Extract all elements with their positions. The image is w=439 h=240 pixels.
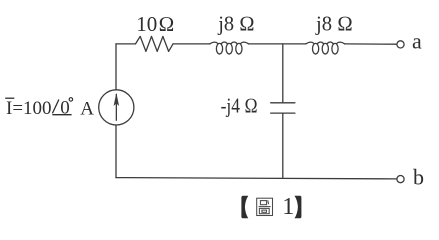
current source arrow — [114, 93, 120, 121]
inductor L2 j8ohm coil — [313, 43, 319, 54]
wire resistor to inductor1 — [173, 43, 210, 45]
wire bottom horizontal — [116, 178, 397, 179]
svg-text:j8 Ω: j8 Ω — [217, 12, 255, 36]
svg-text:0: 0 — [60, 98, 69, 119]
caption figure 1 — [241, 194, 301, 220]
angle symbol with underline under 0 — [52, 100, 71, 115]
wire left vertical lower — [115, 125, 117, 178]
svg-text:-j4 Ω: -j4 Ω — [221, 94, 258, 118]
capacitor C bottom plate — [271, 112, 295, 114]
svg-text:b: b — [413, 164, 424, 189]
svg-text:1: 1 — [282, 194, 294, 220]
svg-text:A: A — [80, 98, 94, 119]
svg-text:j8 Ω: j8 Ω — [315, 12, 353, 36]
wire middle vertical lower (capacitor to bottom) — [282, 113, 284, 178]
wire left vertical upper — [115, 44, 117, 90]
wire top-left horizontal — [116, 43, 136, 45]
wire middle vertical upper (junction to capacitor) — [282, 44, 284, 103]
resistor R 10ohm zigzag — [136, 36, 174, 51]
terminal a circle — [397, 41, 404, 48]
terminal b circle — [397, 176, 404, 183]
current source circle — [99, 90, 134, 125]
svg-text:I=100: I=100 — [6, 98, 52, 119]
capacitor C top plate — [271, 102, 295, 104]
svg-text:10Ω: 10Ω — [136, 12, 174, 36]
caption right lenticular bracket — [295, 196, 302, 219]
caption left lenticular bracket — [241, 196, 248, 219]
svg-text:a: a — [412, 28, 422, 53]
inductor L1 j8ohm coil — [216, 43, 222, 54]
wire inductor1 to inductor2 (through junction) — [248, 43, 306, 45]
current source label I=100 angle 0deg A — [5, 98, 94, 120]
overbar on I — [5, 97, 14, 99]
caption CJK glyph "tu" (figure) drawn as strokes — [257, 198, 273, 215]
wire inductor2 to terminal a — [345, 43, 397, 45]
